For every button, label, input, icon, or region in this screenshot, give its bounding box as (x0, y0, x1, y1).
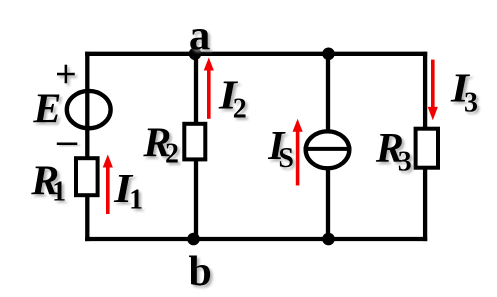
resistor R1 (76, 158, 98, 195)
node a junction dot top (189, 48, 202, 61)
current arrow I1 (103, 155, 113, 215)
voltage source E circle (67, 91, 111, 128)
svg-text:a: a (189, 13, 211, 60)
current source IS circle (306, 131, 350, 168)
svg-text:1: 1 (52, 177, 66, 208)
current arrow I3 (428, 60, 438, 121)
current arrow I2 (204, 58, 214, 119)
current arrow IS (293, 119, 303, 186)
node b junction dot bottom (187, 233, 200, 246)
wire R2 branch vertical (194, 52, 198, 241)
svg-text:3: 3 (464, 87, 478, 118)
minus sign of E (57, 143, 78, 146)
svg-text:3: 3 (398, 147, 412, 178)
current source IS bar (304, 147, 352, 151)
wire left branch vertical (85, 52, 89, 241)
junction dot IS top (322, 48, 335, 61)
plus sign of E (57, 65, 75, 84)
junction dot IS bottom (322, 233, 335, 246)
wire right branch vertical (423, 52, 427, 241)
wire top horizontal a-rail (85, 52, 427, 56)
wire bottom horizontal b-rail (85, 237, 427, 241)
svg-text:b: b (189, 249, 212, 295)
svg-text:2: 2 (233, 94, 247, 125)
wire IS branch vertical (326, 52, 330, 241)
svg-text:2: 2 (165, 139, 179, 170)
resistor R3 (416, 129, 438, 168)
svg-text:S: S (278, 143, 294, 174)
svg-text:E: E (32, 87, 61, 133)
resistor R2 (184, 124, 205, 160)
svg-text:1: 1 (129, 185, 143, 216)
